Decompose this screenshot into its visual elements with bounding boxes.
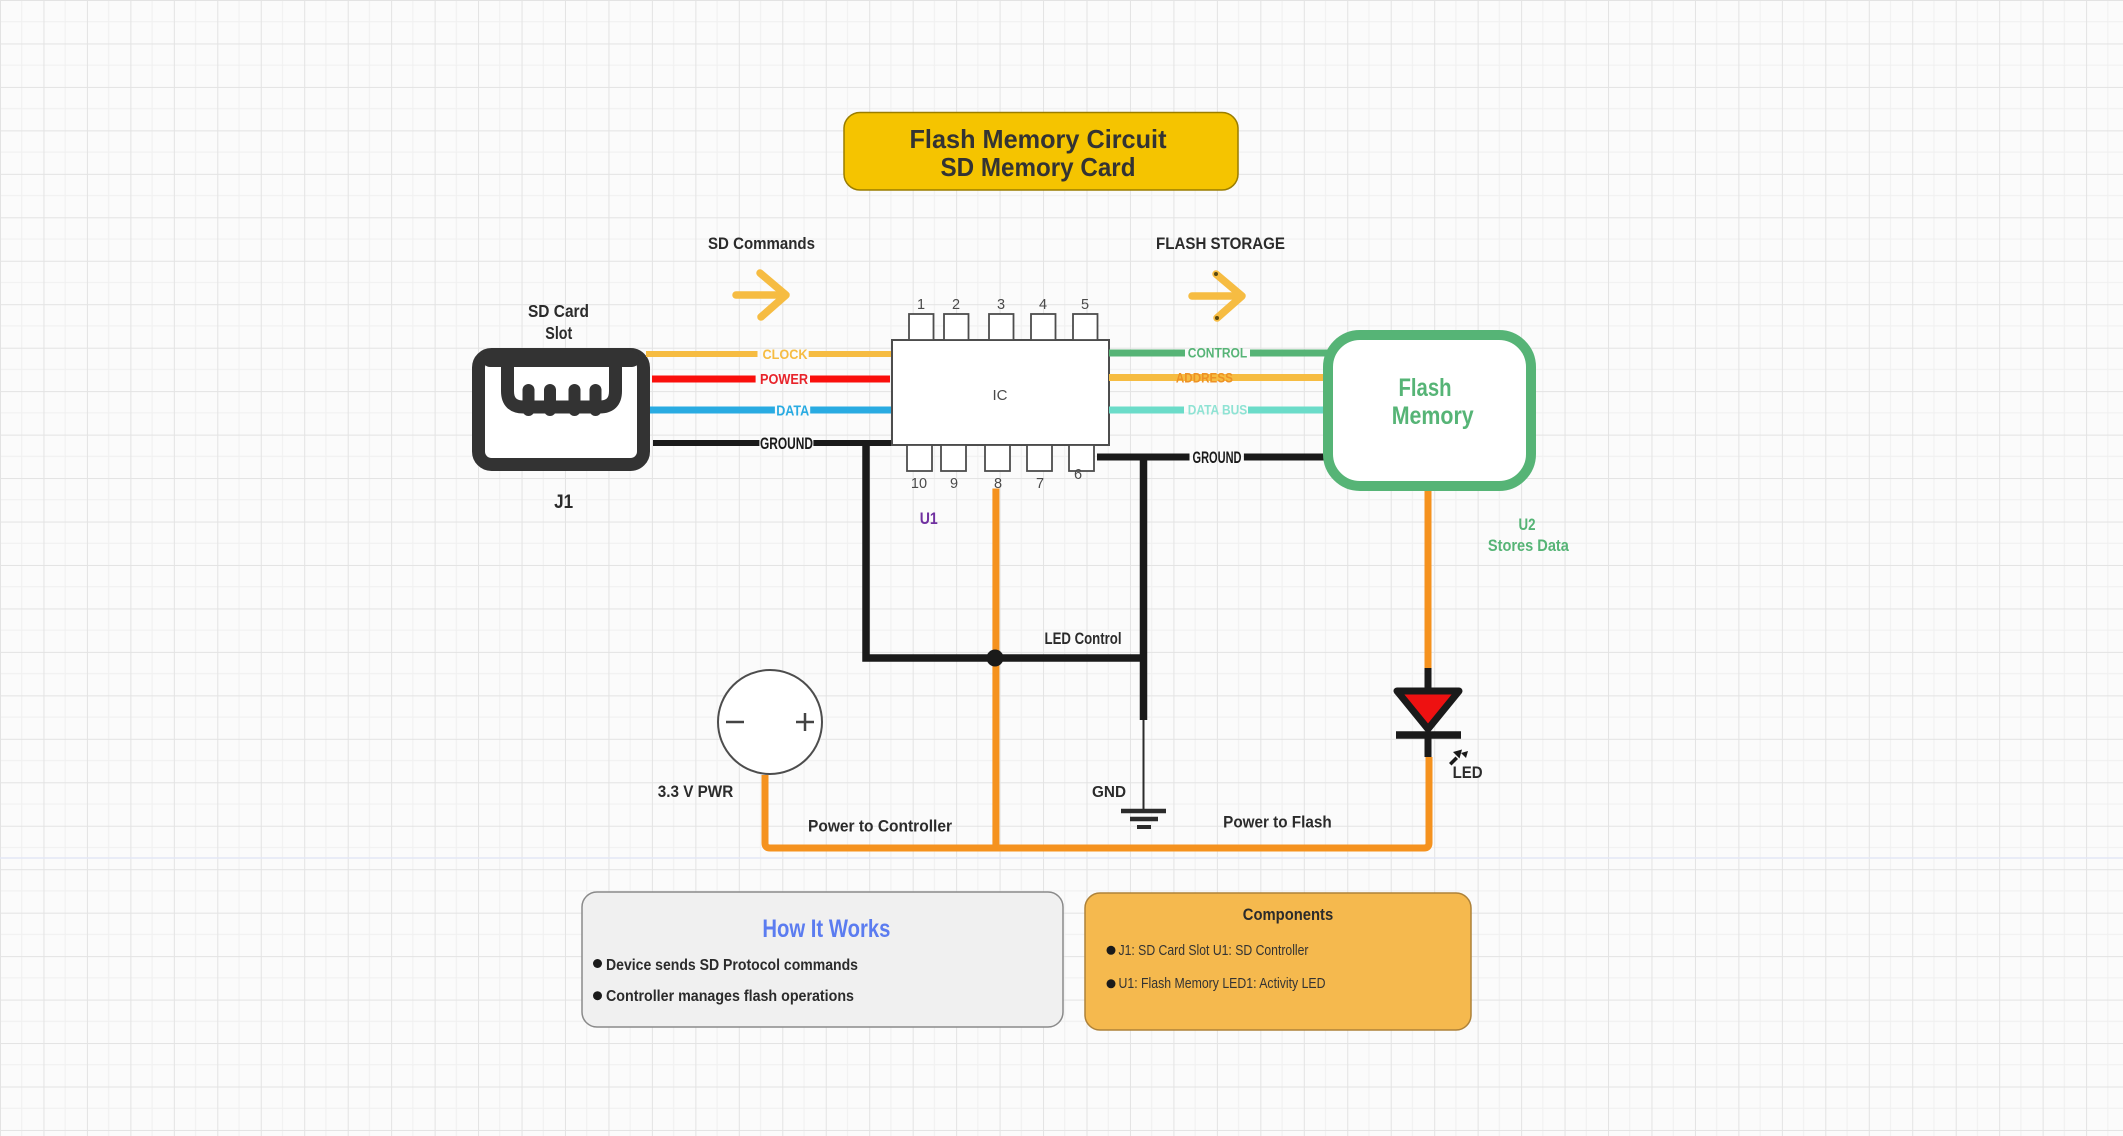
arrow FLASH STORAGE: [1192, 272, 1242, 320]
svg-text:1: 1: [917, 297, 925, 313]
info box How It Works: [582, 892, 1063, 1027]
pin 4: [1031, 297, 1056, 340]
svg-text:Flash: Flash: [1399, 374, 1452, 402]
svg-text:DATA: DATA: [776, 404, 809, 420]
svg-text:U1: Flash Memory LED1: Activit: U1: Flash Memory LED1: Activity LED: [1119, 976, 1326, 992]
svg-text:U2: U2: [1519, 515, 1536, 534]
svg-text:J1: J1: [554, 492, 573, 513]
svg-text:CLOCK: CLOCK: [763, 346, 808, 362]
svg-text:GROUND: GROUND: [1193, 449, 1242, 467]
wire flash to LED (orange): [1425, 491, 1432, 670]
pin 9: [941, 445, 966, 492]
svg-text:5: 5: [1081, 297, 1089, 313]
svg-text:Slot: Slot: [545, 323, 572, 343]
svg-text:9: 9: [950, 476, 958, 492]
title box: [844, 113, 1238, 191]
svg-text:10: 10: [911, 476, 927, 492]
pin 3: [989, 297, 1014, 340]
svg-text:J1: SD Card Slot U1: SD Contro: J1: SD Card Slot U1: SD Controller: [1119, 943, 1309, 959]
svg-text:SD Card: SD Card: [528, 301, 589, 321]
svg-text:3: 3: [997, 297, 1005, 313]
svg-text:Memory: Memory: [1392, 402, 1474, 430]
svg-text:DATA BUS: DATA BUS: [1188, 403, 1248, 418]
svg-text:CONTROL: CONTROL: [1188, 346, 1248, 361]
wire DATA BUS (teal): [1109, 407, 1332, 414]
pin 7: [1027, 445, 1052, 492]
svg-text:LED: LED: [1453, 763, 1483, 782]
wire GROUND (black, right): [1097, 454, 1332, 461]
pin 10: [907, 445, 932, 492]
svg-text:LED Control: LED Control: [1045, 629, 1122, 648]
pin 2: [944, 297, 969, 340]
pin 1: [909, 297, 934, 340]
pin 5: [1073, 297, 1098, 340]
svg-text:How It Works: How It Works: [762, 915, 890, 943]
svg-text:6: 6: [1074, 467, 1082, 483]
pin 6: [1069, 445, 1094, 483]
wire pin 8 to rail (orange): [992, 489, 999, 849]
svg-text:Flash Memory Circuit: Flash Memory Circuit: [910, 124, 1167, 154]
connector J1 SD card slot icon: [479, 350, 644, 465]
svg-text:Components: Components: [1243, 905, 1333, 924]
svg-text:Power to Controller: Power to Controller: [808, 817, 952, 836]
svg-text:GND: GND: [1092, 784, 1126, 801]
junction node: [987, 650, 1004, 667]
svg-text:IC: IC: [993, 387, 1008, 404]
power source 3.3V: [718, 670, 822, 774]
svg-text:POWER: POWER: [760, 372, 808, 388]
info box Components: [1085, 893, 1471, 1030]
wire GND drop (black): [1140, 457, 1148, 720]
wire ADDRESS (yellow): [1109, 374, 1332, 381]
IC U1 body: [892, 340, 1109, 445]
wire CONTROL (green): [1109, 350, 1332, 357]
svg-text:Device sends SD Protocol comma: Device sends SD Protocol commands: [606, 957, 858, 974]
wire GROUND (black, left): [653, 440, 892, 446]
svg-text:Controller manages flash opera: Controller manages flash operations: [606, 988, 854, 1005]
svg-text:Stores Data: Stores Data: [1488, 536, 1569, 555]
wire SD ground to LED control (black): [866, 440, 1147, 658]
svg-text:3.3 V PWR: 3.3 V PWR: [658, 782, 734, 801]
svg-text:2: 2: [952, 297, 960, 313]
wire POWER (red): [652, 376, 890, 383]
svg-text:SD Memory Card: SD Memory Card: [941, 152, 1136, 182]
pin 8: [985, 445, 1010, 492]
svg-text:FLASH STORAGE: FLASH STORAGE: [1156, 234, 1285, 253]
wire LED to rail / power rail / power feed (orange): [765, 757, 1429, 848]
svg-text:4: 4: [1039, 297, 1047, 313]
svg-text:SD Commands: SD Commands: [708, 234, 815, 253]
flash memory U2 box: [1328, 335, 1531, 486]
ground symbol: [1121, 811, 1166, 827]
svg-text:ADDRESS: ADDRESS: [1176, 370, 1233, 386]
svg-text:GROUND: GROUND: [760, 435, 813, 453]
arrow SD Commands: [736, 273, 786, 317]
svg-text:7: 7: [1036, 476, 1044, 492]
wire CLOCK (yellow): [646, 351, 892, 357]
svg-text:U1: U1: [920, 510, 938, 528]
wire DATA (blue): [650, 407, 891, 414]
LED LED1: [1396, 668, 1468, 766]
svg-text:Power to Flash: Power to Flash: [1223, 813, 1332, 832]
